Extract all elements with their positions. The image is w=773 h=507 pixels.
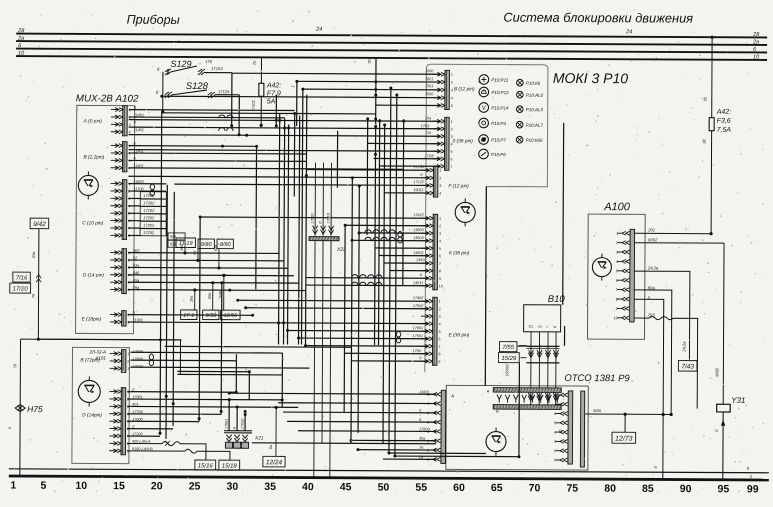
svg-text:45: 45: [340, 481, 352, 493]
svg-text:25: 25: [189, 480, 201, 492]
svg-text:Н75: Н75: [27, 404, 43, 414]
node mid connector wire labels: [412, 69, 434, 360]
svg-text:65а: 65а: [208, 293, 212, 299]
svg-text:t: t: [547, 325, 548, 329]
svg-text:39а: 39а: [190, 296, 194, 302]
svg-text:24,2а: 24,2а: [681, 341, 686, 353]
node MUX pin wire value labels: [132, 106, 155, 451]
node title Sistema blokirovki dvizheniya: [503, 10, 693, 26]
svg-text:8/90: 8/90: [220, 242, 232, 248]
svg-text:8: 8: [554, 393, 556, 397]
svg-text:17001: 17001: [225, 419, 229, 430]
node boxed labels right of group C: [168, 233, 185, 247]
wire ref 9/42 down: [32, 229, 42, 341]
svg-text:7,5А: 7,5А: [717, 127, 732, 134]
svg-text:D (14рin): D (14рin): [82, 412, 102, 418]
svg-text:9002: 9002: [714, 367, 719, 377]
svg-text:6: 6: [439, 254, 441, 258]
svg-text:13531: 13531: [413, 281, 424, 285]
node diode arrows inside OTCO: [497, 395, 560, 403]
node ref 9/38: [203, 310, 219, 320]
wire left vertical to H75: [8, 339, 21, 476]
svg-text:ОТСО 1381 Р9: ОТСО 1381 Р9: [564, 373, 630, 384]
block A100 box: [588, 214, 646, 339]
svg-text:6: 6: [439, 337, 441, 341]
svg-text:9: 9: [438, 360, 440, 364]
svg-text:2: 2: [439, 224, 441, 228]
svg-text:99: 99: [747, 483, 759, 495]
svg-text:9/42: 9/42: [33, 221, 46, 228]
transistor Q1: [78, 171, 98, 199]
svg-text:3: 3: [439, 232, 441, 236]
node H75: [15, 404, 43, 414]
svg-text:74: 74: [427, 131, 431, 135]
svg-text:2а: 2а: [752, 39, 759, 45]
wire X22 tails: [314, 241, 331, 478]
node A100 wire labels: [647, 227, 660, 317]
svg-text:7: 7: [616, 288, 618, 292]
svg-text:1: 1: [439, 217, 441, 221]
wire LAN-B: [127, 449, 230, 460]
connector K (36 pin) of P10: [421, 214, 470, 290]
svg-text:9: 9: [616, 307, 618, 311]
svg-text:5: 5: [41, 480, 47, 492]
svg-text:Р10:К6: Р10:К6: [526, 81, 541, 86]
svg-text:17103: 17103: [211, 66, 223, 71]
block MOKI 3 P10 title: [553, 70, 628, 86]
block MOKI 3 P10 outline: [425, 64, 548, 386]
svg-text:4: 4: [451, 96, 453, 100]
svg-text:9/80: 9/80: [201, 242, 213, 248]
svg-text:5: 5: [451, 104, 453, 108]
wire mesh horizontal segments: [37, 72, 528, 460]
svg-text:17202: 17202: [143, 230, 155, 235]
transistor Q4: [592, 254, 611, 281]
svg-text:1760: 1760: [412, 349, 421, 353]
node ref 17/20: [10, 283, 31, 293]
svg-text:17202: 17202: [143, 215, 155, 220]
svg-text:7/55: 7/55: [502, 345, 514, 351]
svg-text:70: 70: [529, 482, 541, 494]
node P10 indicator circle icons column 1: [478, 75, 509, 159]
wire LAN-A: [127, 441, 206, 460]
node ref 12/24: [263, 456, 285, 467]
svg-text:85: 85: [642, 483, 654, 495]
svg-text:9: 9: [439, 277, 441, 281]
svg-text:Система блокировки движения: Система блокировки движения: [503, 10, 693, 26]
node ref 17.1: [181, 310, 197, 320]
svg-text:17202: 17202: [143, 200, 155, 205]
switch S129: [157, 59, 232, 77]
svg-text:4: 4: [616, 260, 618, 264]
wire B10 rails: [526, 346, 559, 363]
block B10 label: [548, 294, 566, 305]
diode block X22: [309, 163, 346, 253]
svg-text:7/16: 7/16: [16, 275, 28, 281]
wire bottom frame line: [9, 469, 769, 480]
wire bus line 6: [16, 43, 767, 53]
svg-text:35: 35: [264, 481, 276, 493]
svg-text:3: 3: [439, 315, 441, 319]
svg-text:7/43: 7/43: [681, 363, 694, 370]
svg-text:2: 2: [451, 81, 453, 85]
svg-text:15/16: 15/16: [198, 463, 214, 469]
svg-text:60: 60: [453, 482, 465, 494]
svg-text:291: 291: [647, 227, 655, 232]
svg-text:90: 90: [680, 483, 692, 495]
svg-text:178: 178: [205, 59, 213, 64]
svg-text:70: 70: [703, 96, 708, 101]
svg-text:С (10 рin): С (10 рin): [82, 220, 103, 226]
svg-text:65: 65: [491, 482, 503, 494]
svg-text:В (2,2рin): В (2,2рin): [83, 154, 104, 160]
svg-text:8: 8: [438, 352, 440, 356]
svg-text:1: 1: [439, 169, 441, 173]
svg-text:1: 1: [451, 120, 453, 124]
svg-text:5: 5: [439, 247, 441, 251]
connector group D14 of MUX: [82, 387, 129, 454]
block A101 label: [88, 349, 106, 360]
wire A100 0: [633, 299, 663, 479]
block MUX-2B A102 label: [76, 93, 139, 104]
connector group B of MUX: [83, 141, 130, 171]
svg-text:28: 28: [17, 28, 25, 34]
node boxed value labels near group C: [140, 192, 166, 236]
svg-text:MUX-2В А102: MUX-2В А102: [76, 93, 139, 104]
connector bar B inside OTCO: [493, 405, 561, 414]
svg-text:13602: 13602: [413, 251, 424, 255]
svg-text:Е (36 рin): Е (36 рin): [449, 332, 470, 338]
wire refs to B10: [505, 346, 526, 377]
svg-text:10: 10: [614, 316, 618, 320]
node ref 9/42: [30, 218, 49, 229]
fuse A42:F7,9 5A: [251, 57, 282, 127]
svg-text:12/24: 12/24: [266, 459, 283, 466]
svg-text:Приборы: Приборы: [127, 13, 180, 27]
node ref 15/18: [219, 460, 240, 470]
svg-text:17202: 17202: [143, 208, 155, 213]
svg-text:2: 2: [451, 127, 453, 131]
svg-text:2: 2: [127, 360, 129, 364]
node mesh rotated labels: [180, 244, 223, 302]
wire A100 242a: [634, 271, 690, 359]
svg-text:6: 6: [554, 412, 556, 416]
svg-text:4: 4: [439, 322, 441, 326]
connector group E of MUX: [82, 310, 130, 326]
svg-text:7: 7: [450, 165, 452, 169]
svg-text:90: 90: [702, 138, 707, 143]
svg-text:24,2а: 24,2а: [647, 265, 659, 270]
svg-text:10: 10: [439, 284, 443, 288]
wire hop marks on K36 rows: [352, 230, 396, 286]
wire A100 293: [634, 316, 698, 408]
wire ref 12/24 stub: [269, 406, 278, 457]
node ref 12/73: [612, 432, 636, 443]
block OTCO box: [446, 385, 588, 470]
svg-text:1: 1: [127, 352, 129, 356]
svg-text:Р10:Р7: Р10:Р7: [491, 138, 506, 143]
svg-text:19011: 19011: [413, 188, 423, 192]
svg-text:70: 70: [252, 60, 257, 65]
svg-text:75: 75: [566, 482, 578, 494]
svg-text:5: 5: [451, 150, 453, 154]
svg-text:17122: 17122: [413, 180, 424, 184]
svg-text:А (0 рin): А (0 рin): [83, 118, 103, 124]
svg-text:17001: 17001: [311, 213, 315, 224]
svg-text:5: 5: [616, 269, 618, 273]
connector O (36 pin) of P10: [433, 117, 474, 170]
block OTCO 1381 P9 title: [564, 373, 630, 384]
wire 50N: [585, 408, 671, 432]
svg-text:30: 30: [226, 481, 238, 493]
svg-text:Е (18рin): Е (18рin): [82, 316, 102, 322]
connector bar A inside OTCO: [487, 388, 562, 394]
svg-text:МОКI 3 Р10: МОКI 3 Р10: [553, 70, 628, 86]
node ruler scale: [10, 480, 758, 496]
svg-text:17202: 17202: [143, 223, 155, 228]
svg-text:646: 646: [219, 290, 223, 297]
svg-text:Х21: Х21: [254, 435, 264, 441]
fuse A42:F3,6 7,5A: [701, 36, 732, 234]
svg-text:3: 3: [451, 88, 453, 92]
svg-text:В (72рin): В (72рin): [80, 357, 100, 363]
svg-text:+0: +0: [538, 325, 542, 329]
svg-text:50N: 50N: [593, 408, 602, 413]
connector B (12 pin) of P10: [433, 70, 475, 109]
svg-text:3: 3: [451, 135, 453, 139]
connector D right of OTCO: [554, 391, 585, 467]
svg-text:63а: 63а: [214, 245, 218, 251]
svg-text:Р10:АL5: Р10:АL5: [526, 107, 544, 112]
svg-text:6: 6: [616, 279, 618, 283]
svg-text:15/18: 15/18: [222, 464, 238, 470]
svg-text:10а: 10а: [425, 116, 431, 120]
svg-text:А: А: [487, 389, 490, 394]
svg-text:10: 10: [753, 54, 760, 60]
node ref 7/43: [678, 361, 697, 372]
svg-text:3: 3: [127, 367, 129, 371]
svg-text:17101: 17101: [251, 100, 256, 111]
wire S129 down-left: [161, 95, 164, 114]
svg-text:17502: 17502: [413, 304, 424, 308]
svg-text:17-1: 17-1: [183, 313, 194, 319]
node ref 11/19: [176, 238, 195, 248]
node ref 7/16: [13, 272, 30, 282]
wire risers to ref boxes row2: [193, 274, 225, 311]
svg-text:2а: 2а: [17, 36, 24, 42]
block A100 label: [603, 201, 631, 213]
svg-text:3: 3: [439, 184, 441, 188]
transistor Q3: [455, 198, 475, 226]
svg-text:К (36 рin): К (36 рin): [449, 250, 470, 256]
svg-text:0 (36 рin): 0 (36 рin): [453, 138, 474, 144]
diode block X21: [224, 418, 264, 449]
svg-text:7: 7: [554, 403, 556, 407]
svg-text:11401: 11401: [134, 128, 144, 132]
svg-text:Р10:АL7: Р10:АL7: [526, 123, 544, 128]
node P10 lamp icons column 2: [516, 79, 543, 143]
wire B10 leads with diode arrows: [528, 332, 558, 405]
node ref 15/16: [195, 460, 216, 470]
svg-text:17402: 17402: [413, 296, 424, 300]
svg-text:1703: 1703: [421, 124, 430, 128]
svg-text:А: А: [451, 393, 454, 398]
wire bus line 28: [16, 28, 767, 38]
node ref 15/29: [498, 353, 519, 363]
svg-text:50: 50: [378, 481, 390, 493]
svg-text:4: 4: [554, 431, 556, 435]
connector group A of MUX: [83, 105, 131, 135]
wire mesh vertical segments: [160, 57, 566, 457]
svg-text:9а: 9а: [269, 445, 273, 449]
svg-text:Y31: Y31: [731, 396, 745, 405]
node twist mark on rows 233-240: [398, 231, 403, 243]
svg-text:28: 28: [752, 32, 760, 38]
svg-text:1: 1: [451, 73, 453, 77]
svg-text:4: 4: [439, 192, 441, 196]
connector group B72 of MUX: [80, 349, 129, 372]
svg-text:70: 70: [367, 59, 372, 64]
svg-text:Р10:Р14: Р10:Р14: [491, 106, 509, 111]
svg-text:1: 1: [616, 232, 618, 236]
wire bus line 10: [16, 51, 767, 61]
node corner marks bottom right: [747, 466, 753, 479]
connector of A100: [614, 229, 635, 322]
svg-text:5А: 5А: [267, 98, 276, 105]
svg-text:Р10:АL0: Р10:АL0: [526, 93, 544, 98]
wire A100 291: [635, 232, 713, 236]
svg-text:4: 4: [129, 130, 131, 134]
svg-text:24: 24: [315, 27, 322, 33]
svg-text:24: 24: [625, 29, 632, 35]
node ref 7/55: [499, 342, 516, 352]
svg-text:1: 1: [554, 458, 556, 462]
svg-text:В (12 рin): В (12 рin): [454, 86, 475, 92]
svg-text:4: 4: [439, 239, 441, 243]
svg-text:В: В: [496, 409, 499, 414]
wire H75 branch: [20, 339, 180, 374]
svg-text:7: 7: [439, 262, 441, 266]
svg-text:20: 20: [151, 480, 163, 492]
svg-text:Р10:Р4: Р10:Р4: [491, 121, 506, 126]
svg-text:V: V: [482, 106, 486, 112]
connector E (36 pin) of P10: [421, 297, 470, 365]
svg-text:Р10:К66: Р10:К66: [526, 138, 543, 143]
node ref 8/90: [217, 239, 233, 249]
connector F (12 pin) of P10: [421, 166, 469, 197]
node bus label 24 mid: [315, 27, 632, 36]
connector group D of MUX: [83, 248, 130, 293]
block MUX-2B A102 box: [76, 105, 135, 333]
wire A100 80a: [634, 290, 674, 416]
svg-text:2Л-32-А: 2Л-32-А: [88, 349, 106, 354]
wire risers to ref boxes row1: [183, 248, 220, 270]
node OTCO left wire labels: [418, 390, 431, 459]
svg-text:53а: 53а: [32, 252, 36, 258]
transistor Q5: [486, 428, 506, 456]
svg-text:1: 1: [10, 480, 16, 492]
svg-text:12/96: 12/96: [223, 313, 238, 319]
svg-text:13503: 13503: [413, 236, 424, 240]
svg-text:3: 3: [554, 440, 556, 444]
svg-text:13603: 13603: [413, 228, 424, 232]
svg-text:D (14 рin): D (14 рin): [83, 272, 104, 278]
svg-text:9002: 9002: [648, 237, 658, 242]
svg-text:17/20: 17/20: [13, 286, 29, 292]
svg-text:55: 55: [415, 482, 427, 494]
svg-text:5/8: 5/8: [170, 242, 177, 247]
svg-text:12/73: 12/73: [615, 436, 633, 443]
svg-text:2: 2: [616, 241, 618, 245]
svg-text:300: 300: [180, 244, 184, 251]
svg-text:3: 3: [616, 251, 618, 255]
svg-text:6: 6: [450, 157, 452, 161]
svg-text:5: 5: [554, 421, 556, 425]
svg-text:2: 2: [439, 307, 441, 311]
svg-text:F3,6: F3,6: [717, 118, 731, 125]
switch S128: [156, 72, 240, 98]
svg-text:10: 10: [18, 51, 25, 57]
svg-text:8: 8: [439, 269, 441, 273]
svg-text:7: 7: [438, 345, 440, 349]
block A101 box: [72, 347, 130, 463]
svg-text:А100: А100: [603, 201, 631, 213]
svg-text:А42:: А42:: [716, 109, 731, 116]
svg-text:1: 1: [439, 300, 441, 304]
svg-text:40: 40: [302, 481, 314, 493]
svg-text:17601: 17601: [413, 326, 424, 330]
svg-text:5: 5: [439, 330, 441, 334]
svg-text:17501: 17501: [413, 334, 424, 338]
node twist mark on group C wires: [150, 184, 155, 196]
connector group C of MUX: [82, 179, 130, 239]
transistor Q2: [78, 376, 100, 406]
node ref 12/96: [221, 310, 240, 320]
block B10 box: [524, 305, 561, 332]
node ref 9/80: [198, 239, 214, 249]
svg-text:3: 3: [129, 123, 131, 127]
svg-text:17422: 17422: [413, 213, 424, 217]
svg-text:Р10:Р6: Р10:Р6: [491, 152, 506, 157]
svg-text:17032: 17032: [241, 418, 245, 429]
wire hop marks on row 119: [219, 115, 233, 131]
svg-text:17126: 17126: [218, 89, 230, 94]
svg-text:F (12 рin): F (12 рin): [448, 183, 469, 189]
svg-text:2: 2: [554, 449, 556, 453]
svg-text:А42:: А42:: [266, 82, 281, 89]
svg-text:15: 15: [113, 480, 125, 492]
node junction dots: [158, 79, 522, 458]
svg-text:8: 8: [616, 298, 618, 302]
svg-text:5/8: 5/8: [170, 234, 177, 239]
svg-text:9/38: 9/38: [205, 313, 217, 319]
svg-text:2: 2: [439, 176, 441, 180]
node twist mark on group B72 wires: [149, 354, 154, 366]
svg-text:165002: 165002: [505, 363, 509, 377]
node title Pribory: [127, 13, 180, 27]
wire A100 9002: [634, 243, 724, 405]
svg-text:15/29: 15/29: [501, 356, 517, 362]
svg-text:80: 80: [604, 483, 616, 495]
connector A left of OTCO: [427, 390, 454, 463]
svg-text:Р10:Р12: Р10:Р12: [491, 90, 509, 95]
wire bus line 2а: [16, 36, 767, 46]
svg-text:Р10:Р11: Р10:Р11: [491, 78, 508, 83]
relay Y31: [714, 396, 746, 480]
node twist mark near E36 wires: [396, 331, 401, 343]
